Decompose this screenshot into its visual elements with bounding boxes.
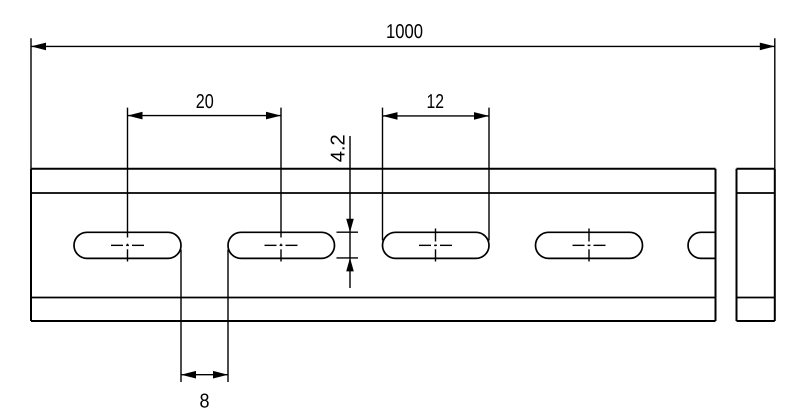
dimension 20 extension/centerline right xyxy=(280,108,282,238)
dimension 8 extension line left xyxy=(180,250,182,383)
dimension 12 extension line right xyxy=(488,108,490,241)
svg-text:8: 8 xyxy=(200,391,210,413)
slot 3 centerline cross xyxy=(419,229,452,262)
dimension 12 extension line left xyxy=(382,108,384,241)
rail left edge xyxy=(30,169,32,321)
dimension 4.2 top tick xyxy=(337,231,359,233)
arrowhead 12 right xyxy=(474,112,489,120)
rail end piece right edge xyxy=(774,169,776,321)
slot 1 xyxy=(74,232,181,258)
arrowhead 20 left xyxy=(128,112,143,120)
rail end piece inner top line xyxy=(737,192,775,194)
slot 5 (cut by break) xyxy=(688,232,715,258)
arrowhead 12 left xyxy=(383,112,398,120)
slot 3 xyxy=(383,232,490,258)
slot 4 centerline cross xyxy=(573,229,606,262)
arrowhead 4.2 down xyxy=(346,219,354,233)
arrowhead 1000 left xyxy=(31,43,46,51)
dimension 4.2 line xyxy=(349,136,351,288)
rail break cut edge xyxy=(715,169,717,321)
arrowhead 20 right xyxy=(266,112,281,120)
slot 1 centerline cross xyxy=(111,244,144,262)
slot 2 xyxy=(228,232,335,258)
svg-text:12: 12 xyxy=(427,91,445,113)
svg-text:4.2: 4.2 xyxy=(328,134,350,162)
slot 4 xyxy=(536,232,643,258)
rail top edge xyxy=(31,168,716,170)
dimension 1000 extension line right xyxy=(774,38,776,169)
rail end piece left cut edge xyxy=(736,169,738,321)
svg-text:20: 20 xyxy=(196,91,214,113)
arrowhead 1000 right xyxy=(760,43,775,51)
dimension 8 line xyxy=(181,374,228,376)
rail end piece bottom edge xyxy=(737,320,775,322)
dimension 8 extension line right xyxy=(227,250,229,383)
dimension 1000 extension line left xyxy=(30,38,32,169)
arrowhead 8 right xyxy=(213,371,228,379)
dimension 1000 line xyxy=(31,45,775,47)
rail end piece top edge xyxy=(737,168,775,170)
arrowhead 8 left xyxy=(181,371,196,379)
arrowhead 4.2 up xyxy=(346,258,354,272)
dimension 12 line xyxy=(383,115,490,117)
rail end piece inner bottom line xyxy=(737,297,775,299)
rail inner bottom line xyxy=(31,297,716,299)
slot 2 centerline cross xyxy=(265,244,298,262)
svg-text:1000: 1000 xyxy=(386,21,423,43)
dimension 20 extension/centerline left xyxy=(127,108,129,238)
dimension 4.2 bottom tick xyxy=(337,257,359,259)
dimension 20 line xyxy=(128,115,282,117)
rail inner top line xyxy=(31,192,716,194)
rail bottom edge xyxy=(31,320,716,322)
